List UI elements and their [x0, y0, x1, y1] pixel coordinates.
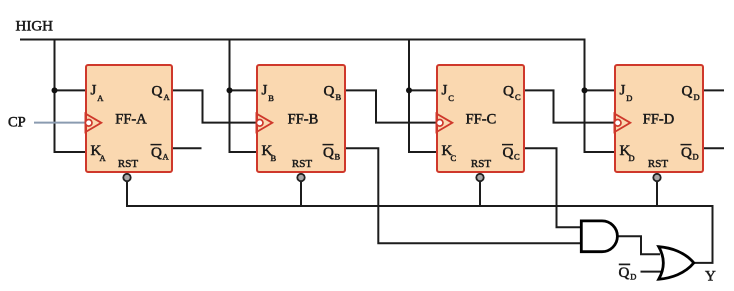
flip-flop FF-A: [85, 65, 172, 181]
FF-B clock input triangle: [256, 114, 272, 133]
junction dot at J_A feed: [52, 87, 58, 93]
FF-B body: [257, 65, 345, 172]
flip-flop FF-C: [436, 65, 524, 181]
svg-text:B: B: [271, 153, 277, 163]
wire Q_B to FF-C clock input: [345, 90, 437, 122]
svg-text:HIGH: HIGH: [16, 19, 54, 35]
FF-A clock input bubble: [85, 120, 92, 127]
svg-text:C: C: [448, 93, 454, 103]
junction dot at J_C feed: [406, 87, 412, 93]
FF-C RST pin bubble: [476, 174, 483, 181]
FF-D clock input bubble: [614, 120, 621, 127]
FF-C body: [437, 65, 524, 172]
wire HIGH rail: [20, 39, 585, 41]
wire Q̄_A stub (unused): [172, 147, 202, 149]
svg-text:Q: Q: [324, 84, 335, 100]
flip-flop FF-B: [256, 65, 345, 181]
svg-text:D: D: [629, 153, 635, 163]
wire Q_C to FF-D clock input: [524, 90, 615, 122]
svg-text:C: C: [514, 152, 520, 162]
svg-text:RST: RST: [648, 158, 668, 170]
wire CP to FF-A clock input: [34, 122, 86, 124]
svg-text:C: C: [515, 92, 521, 102]
wire HIGH feed to J_B and K_B: [230, 39, 258, 153]
svg-text:Q: Q: [151, 145, 162, 161]
wire RST rail: [126, 205, 713, 207]
FF-C clock input bubble: [436, 120, 443, 127]
svg-text:Q: Q: [503, 145, 514, 161]
svg-text:J: J: [91, 83, 97, 99]
FF-A clock input triangle: [85, 114, 101, 133]
FF-D body: [615, 65, 703, 172]
FF-A body: [86, 65, 172, 172]
svg-text:A: A: [97, 93, 104, 103]
wire FF-C RST to rail: [479, 178, 481, 206]
svg-text:B: B: [336, 92, 342, 102]
wire HIGH feed to J_D and K_D: [585, 39, 616, 153]
svg-text:J: J: [262, 83, 268, 99]
wire Q̄_D to OR lower input: [641, 271, 662, 273]
svg-text:B: B: [268, 93, 274, 103]
svg-text:B: B: [335, 152, 341, 162]
svg-text:Q: Q: [323, 145, 334, 161]
OR gate U2: [659, 247, 694, 280]
svg-text:D: D: [693, 152, 699, 162]
svg-text:Q: Q: [503, 84, 514, 100]
wire Y output feedback to RST rail: [694, 205, 713, 263]
svg-text:Q: Q: [682, 84, 693, 100]
svg-text:Q: Q: [681, 145, 692, 161]
svg-text:A: A: [164, 92, 171, 102]
svg-text:FF-A: FF-A: [115, 112, 147, 128]
AND gate U1: [581, 221, 617, 252]
svg-text:Q: Q: [619, 265, 630, 281]
wire FF-A RST to rail: [126, 178, 128, 206]
wire FF-B RST to rail: [300, 178, 302, 206]
svg-text:A: A: [163, 152, 170, 162]
wire Q_D output stub: [703, 89, 724, 91]
FF-D clock input triangle: [614, 114, 630, 133]
wire HIGH feed to J_A and K_A: [55, 39, 87, 153]
svg-text:J: J: [620, 83, 626, 99]
wire HIGH feed to J_C and K_C: [409, 39, 437, 153]
FF-B RST pin bubble: [297, 174, 304, 181]
svg-text:RST: RST: [471, 158, 491, 170]
svg-text:A: A: [100, 153, 107, 163]
junction dot at J_D feed: [582, 87, 588, 93]
svg-text:D: D: [630, 272, 636, 282]
svg-text:D: D: [694, 92, 700, 102]
FF-C clock input triangle: [436, 114, 452, 133]
svg-text:C: C: [451, 153, 457, 163]
wire FF-D RST to rail: [656, 178, 658, 206]
wire AND output to OR upper input: [617, 236, 660, 254]
FF-D RST pin bubble: [653, 174, 660, 181]
svg-text:CP: CP: [8, 115, 26, 131]
svg-text:FF-B: FF-B: [288, 112, 319, 128]
wire Q̄_D output stub: [703, 147, 724, 149]
svg-text:RST: RST: [118, 158, 138, 170]
wire Q_A to FF-B clock input: [172, 90, 257, 122]
junction dot at J_B feed: [227, 87, 233, 93]
svg-text:RST: RST: [292, 158, 312, 170]
svg-text:FF-D: FF-D: [643, 112, 674, 128]
svg-text:J: J: [442, 83, 448, 99]
FF-A RST pin bubble: [123, 174, 130, 181]
flip-flop FF-D: [614, 65, 703, 181]
FF-B clock input bubble: [256, 120, 263, 127]
svg-text:Q: Q: [152, 84, 163, 100]
svg-text:Y: Y: [705, 269, 716, 285]
wire Q̄_B to AND gate lower input: [345, 148, 582, 243]
wire Q̄_C to AND gate upper input: [524, 148, 582, 227]
svg-text:D: D: [626, 93, 632, 103]
svg-text:FF-C: FF-C: [466, 112, 497, 128]
